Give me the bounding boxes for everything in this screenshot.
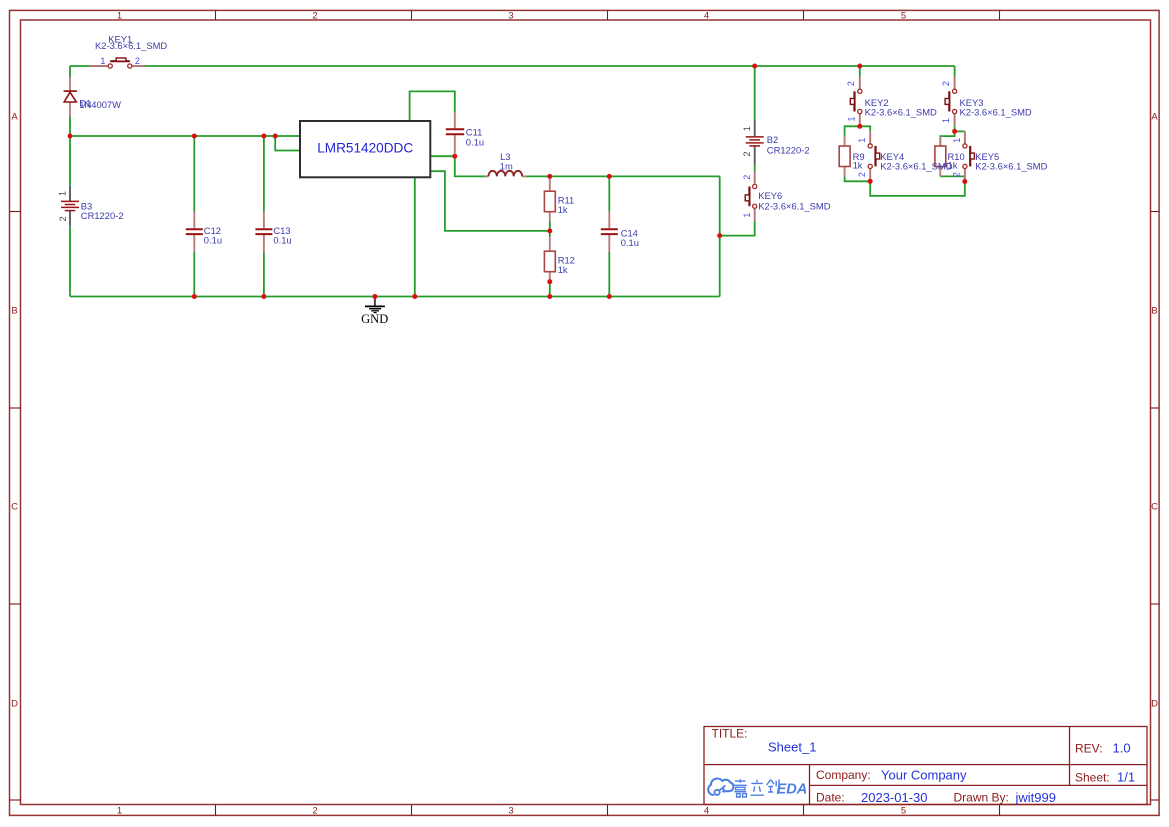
svg-text:Your Company: Your Company	[881, 768, 967, 783]
switch KEY3	[945, 77, 957, 127]
column ticks bottom	[216, 805, 1000, 816]
wire top to KEY2	[859, 66, 861, 77]
label R10	[948, 151, 965, 171]
wire to IC pin 2	[275, 136, 300, 151]
wire C14 top	[608, 176, 610, 211]
wire KEY6 to loop	[720, 221, 755, 236]
svg-text:2: 2	[312, 11, 317, 22]
svg-text:1.0: 1.0	[1113, 741, 1131, 756]
wire VIN horizontal	[70, 135, 300, 137]
label C13	[273, 225, 291, 246]
switch KEY4	[868, 131, 880, 181]
diode D1 1N4007W	[64, 77, 77, 117]
node KEY4 bottom	[868, 179, 873, 184]
svg-text:0.1u: 0.1u	[466, 136, 484, 147]
svg-text:Drawn By:: Drawn By:	[954, 791, 1009, 805]
node C14 top	[607, 174, 612, 179]
svg-text:2: 2	[58, 216, 68, 221]
wire top net main	[145, 65, 955, 67]
wire node to R10	[940, 131, 954, 146]
wire IC right pin1 stub	[430, 155, 455, 157]
title block	[704, 727, 1147, 805]
node KEY6 loop	[717, 233, 722, 238]
svg-text:D: D	[1151, 699, 1158, 710]
wire R12 bottom to rail	[549, 282, 551, 297]
wire IC top riser to C11	[410, 91, 455, 121]
svg-text:2: 2	[857, 172, 867, 177]
label B3	[81, 201, 124, 221]
capacitor C12	[186, 212, 203, 252]
capacitor C14	[601, 212, 618, 252]
resistor R12 1k	[544, 237, 555, 282]
column labels bottom	[117, 806, 906, 817]
node R11 R12 mid	[547, 228, 552, 233]
svg-text:1k: 1k	[948, 160, 958, 171]
inductor L3 1m	[486, 171, 526, 177]
ground	[361, 297, 388, 326]
svg-text:4: 4	[704, 806, 709, 817]
svg-text:1/1: 1/1	[1117, 770, 1135, 785]
wire top corner to KEY3	[954, 66, 956, 77]
svg-text:C: C	[1151, 502, 1158, 513]
wire KEY2 to R9 KEY4	[845, 126, 871, 135]
node rail IC	[412, 294, 417, 299]
row ticks right	[1151, 212, 1160, 801]
label C11	[466, 127, 484, 148]
svg-text:GND: GND	[361, 312, 388, 326]
wire C11 bottom to L3	[455, 156, 486, 176]
svg-text:1: 1	[941, 118, 951, 123]
switch KEY2	[850, 77, 862, 127]
pin numbers KEY2	[846, 81, 856, 121]
column ticks top	[216, 10, 1000, 20]
label C12	[204, 225, 222, 246]
svg-text:2: 2	[312, 806, 317, 817]
node top-B2	[752, 64, 757, 69]
row ticks left	[10, 212, 21, 801]
node KEY5 bottom	[962, 179, 967, 184]
resistor R11 1k	[544, 179, 555, 222]
svg-text:5: 5	[901, 11, 906, 22]
svg-text:1: 1	[742, 126, 752, 131]
svg-text:0.1u: 0.1u	[204, 235, 222, 246]
svg-text:1: 1	[117, 806, 122, 817]
pin numbers KEY6	[742, 175, 752, 218]
svg-text:1: 1	[742, 213, 752, 218]
label KEY4	[880, 151, 952, 171]
wire B3 to rail	[69, 226, 71, 296]
svg-text:Company:: Company:	[816, 768, 871, 782]
svg-text:2: 2	[135, 56, 140, 66]
svg-text:C: C	[11, 502, 18, 513]
svg-text:KEY6: KEY6	[758, 190, 782, 201]
wire key group bottom link	[870, 176, 965, 196]
pin numbers KEY5	[952, 138, 962, 177]
svg-text:1k: 1k	[853, 160, 863, 171]
op-amp U1 LMR51420DDC	[300, 121, 430, 177]
logo text 嘉立创	[734, 779, 779, 797]
label R11	[558, 195, 575, 216]
node R11 top	[547, 174, 552, 179]
wire KEY3 bottom stub	[954, 126, 956, 131]
wire top net left stub	[70, 65, 90, 67]
svg-text:1: 1	[117, 11, 122, 22]
label R12	[558, 254, 575, 275]
wire D1 to B3	[69, 117, 71, 186]
svg-text:1N4007W: 1N4007W	[79, 99, 121, 110]
label KEY5	[975, 151, 1047, 171]
label KEY2	[865, 97, 937, 118]
svg-text:4: 4	[704, 11, 709, 22]
node IC pin2 branch	[273, 134, 278, 139]
label L3	[500, 151, 513, 171]
svg-text:2023-01-30: 2023-01-30	[861, 790, 928, 805]
svg-text:CR1220-2: CR1220-2	[81, 210, 124, 221]
node top-KEY2	[857, 64, 862, 69]
svg-text:2: 2	[952, 172, 962, 177]
svg-text:CR1220-2: CR1220-2	[767, 145, 810, 156]
svg-text:1: 1	[952, 138, 962, 143]
svg-text:1: 1	[100, 56, 105, 66]
node R12 bottom pin	[547, 279, 552, 284]
svg-text:0.1u: 0.1u	[621, 237, 639, 248]
svg-text:K2-3.6×6.1_SMD: K2-3.6×6.1_SMD	[880, 160, 952, 171]
svg-text:K2-3.6×6.1_SMD: K2-3.6×6.1_SMD	[960, 107, 1032, 118]
svg-text:3: 3	[508, 11, 513, 22]
node C11 bottom	[452, 154, 457, 159]
pin numbers KEY4	[857, 138, 867, 177]
svg-text:jwit999: jwit999	[1015, 790, 1056, 805]
svg-text:1m: 1m	[500, 160, 513, 171]
wire ground rail	[70, 296, 720, 298]
node KEY2 bottom	[857, 124, 862, 129]
wire R9 bottom link	[845, 176, 871, 181]
svg-text:K2-3.6×6.1_SMD: K2-3.6×6.1_SMD	[758, 200, 830, 211]
svg-text:A: A	[1151, 111, 1158, 122]
svg-text:REV:: REV:	[1075, 742, 1103, 756]
wire left vertical to D1	[69, 66, 71, 77]
svg-text:1k: 1k	[558, 204, 568, 215]
svg-text:2: 2	[846, 81, 856, 86]
capacitor C11	[446, 112, 464, 154]
switch KEY5	[963, 131, 975, 181]
svg-text:Sheet:: Sheet:	[1075, 771, 1110, 785]
pin numbers KEY3	[941, 81, 951, 123]
svg-text:1: 1	[846, 116, 856, 121]
resistor R10 1k	[935, 136, 946, 176]
wire top to B2	[754, 66, 756, 120]
label B2	[767, 134, 810, 155]
svg-text:K2-3.6×6.1_SMD: K2-3.6×6.1_SMD	[975, 160, 1047, 171]
pin numbers B3	[57, 191, 67, 221]
wire R12 top	[549, 231, 551, 237]
switch KEY1	[90, 58, 145, 68]
wire C13 bottom	[263, 252, 265, 297]
svg-text:B: B	[1151, 306, 1157, 317]
pin numbers KEY1	[100, 56, 140, 66]
switch KEY6	[745, 172, 757, 221]
label C14	[621, 227, 639, 248]
node rail GND	[372, 294, 377, 299]
svg-text:0.1u: 0.1u	[273, 235, 291, 246]
svg-text:B: B	[11, 306, 17, 317]
node rail C12	[192, 294, 197, 299]
wire R10 bottom	[940, 175, 965, 177]
svg-text:K2-3.6×6.1_SMD: K2-3.6×6.1_SMD	[865, 107, 937, 118]
wire IC bottom to rail	[414, 177, 416, 296]
wire node to KEY5	[955, 130, 965, 132]
svg-text:5: 5	[901, 806, 906, 817]
svg-text:2: 2	[742, 175, 752, 180]
svg-text:2: 2	[742, 151, 752, 156]
node rail C13	[261, 294, 266, 299]
row labels right	[1151, 111, 1158, 709]
svg-text:Date:: Date:	[816, 791, 845, 805]
node rail R12	[547, 294, 552, 299]
svg-text:1k: 1k	[558, 264, 568, 275]
label R9	[853, 151, 865, 171]
wire C14 bottom	[608, 252, 610, 297]
label KEY1	[95, 33, 167, 51]
node VIN-left	[68, 134, 73, 139]
wire C12 top	[193, 136, 195, 212]
svg-text:2: 2	[941, 81, 951, 86]
logo cloud icon	[708, 779, 733, 795]
wire L3 to right loop	[526, 175, 720, 177]
label KEY3	[960, 97, 1032, 118]
svg-text:1: 1	[57, 191, 67, 196]
battery B3 CR1220-2	[61, 186, 79, 226]
wire R11 bottom	[549, 221, 551, 231]
svg-text:Sheet_1: Sheet_1	[768, 740, 816, 755]
label D1	[79, 97, 121, 110]
wire B2 to KEY6	[754, 165, 756, 172]
capacitor C13	[255, 212, 272, 252]
node KEY3 bottom	[952, 129, 957, 134]
svg-text:A: A	[11, 111, 18, 122]
pin numbers B2	[742, 126, 752, 156]
wire C13 top	[263, 136, 265, 212]
svg-text:3: 3	[508, 806, 513, 817]
column labels top	[117, 11, 906, 22]
svg-text:EDA: EDA	[777, 782, 808, 798]
node C13 top	[261, 134, 266, 139]
svg-text:1: 1	[857, 138, 867, 143]
wire right loop vertical	[719, 176, 721, 296]
svg-text:LMR51420DDC: LMR51420DDC	[317, 140, 413, 155]
svg-text:TITLE:: TITLE:	[712, 727, 748, 741]
svg-text:D: D	[11, 699, 18, 710]
node rail C14	[607, 294, 612, 299]
svg-text:K2-3.6×6.1_SMD: K2-3.6×6.1_SMD	[95, 40, 167, 51]
row labels left	[11, 111, 18, 709]
battery B2 CR1220-2	[746, 120, 764, 165]
wire IC pin FB loop	[430, 171, 550, 231]
wire C12 bottom	[193, 252, 195, 297]
label KEY6	[758, 190, 830, 211]
resistor R9 1k	[839, 136, 850, 177]
node C12 top	[192, 134, 197, 139]
